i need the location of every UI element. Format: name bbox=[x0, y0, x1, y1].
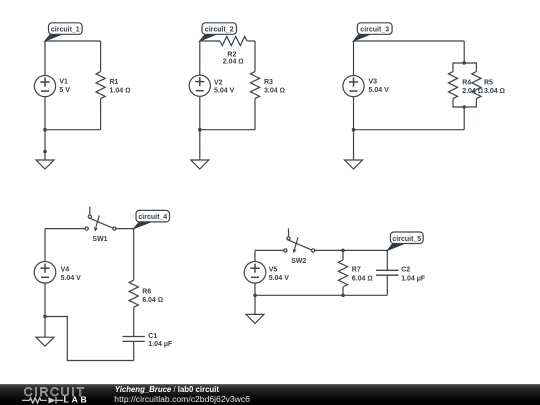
svg-text:SW2: SW2 bbox=[291, 258, 306, 265]
svg-text:SW1: SW1 bbox=[92, 236, 107, 243]
resistor R3 bbox=[250, 72, 259, 99]
wire top circuit3 bbox=[354, 40, 465, 42]
svg-text:LAB: LAB bbox=[64, 395, 90, 405]
svg-text:circuit_4: circuit_4 bbox=[138, 214, 167, 221]
ground circuit1 bbox=[36, 160, 54, 169]
resistor R6 bbox=[129, 280, 138, 307]
wire bottom circuit2 bbox=[200, 129, 255, 131]
svg-text:circuit_5: circuit_5 bbox=[392, 236, 421, 243]
ground circuit3 bbox=[345, 160, 363, 169]
node junction dot circuit2 bottom-left bbox=[198, 128, 202, 132]
wire left-upper circuit1 bbox=[44, 41, 46, 75]
voltage source V2 bbox=[189, 75, 210, 96]
wire left-lower circuit5 bbox=[254, 283, 256, 295]
wire ground stem circuit1 bbox=[44, 130, 46, 160]
svg-text:1.04 µF: 1.04 µF bbox=[148, 341, 173, 348]
wire top-left circuit5 bbox=[255, 249, 284, 251]
wire parallel right branch bottom bbox=[464, 99, 476, 107]
svg-text:R6: R6 bbox=[142, 289, 151, 296]
wire left-upper circuit2 bbox=[199, 41, 201, 75]
svg-text:C1: C1 bbox=[148, 333, 157, 340]
wire left-lower circuit4 bbox=[44, 283, 46, 316]
wire top-right circuit5 bbox=[315, 249, 388, 251]
svg-text:3.04 Ω: 3.04 Ω bbox=[484, 88, 505, 95]
resistor R1 bbox=[96, 72, 105, 99]
switch SW1 bbox=[85, 207, 116, 232]
resistor R7 bbox=[338, 260, 347, 287]
svg-text:5.04 V: 5.04 V bbox=[369, 87, 390, 94]
svg-text:5.04 V: 5.04 V bbox=[214, 88, 235, 95]
resistor R2 (horizontal) bbox=[220, 36, 247, 45]
CircuitLab logo bbox=[0, 384, 110, 405]
svg-text:circuit_3: circuit_3 bbox=[360, 27, 389, 34]
footer bar bbox=[0, 384, 540, 405]
svg-text:1.04 µF: 1.04 µF bbox=[401, 275, 426, 282]
svg-text:V3: V3 bbox=[369, 79, 378, 86]
node junction dot circuit4 bbox=[43, 315, 47, 319]
label callout circuit_4 bbox=[134, 210, 170, 228]
wire ground stem circuit3 bbox=[353, 130, 355, 160]
node junction dot circuit1 bottom-left bbox=[43, 128, 47, 132]
svg-text:V4: V4 bbox=[61, 267, 70, 274]
svg-text:R1: R1 bbox=[110, 79, 119, 86]
wire right-lower circuit1 bbox=[100, 99, 102, 130]
wire ground stem circuit5 bbox=[254, 295, 256, 314]
label callout circuit_5 bbox=[387, 232, 423, 250]
wire right-upper circuit2 bbox=[254, 41, 256, 72]
wire left-upper circuit3 bbox=[353, 41, 355, 75]
capacitor C2 bbox=[376, 270, 398, 275]
svg-text:R3: R3 bbox=[264, 79, 273, 86]
wire parallel right branch top bbox=[464, 63, 476, 72]
wire right rail mid circuit4 bbox=[133, 307, 135, 336]
wire C2 upper lead bbox=[386, 250, 388, 270]
svg-text:V1: V1 bbox=[59, 79, 68, 86]
svg-text:R7: R7 bbox=[352, 267, 361, 274]
ground circuit2 bbox=[191, 160, 209, 169]
wire left-upper circuit5 bbox=[254, 250, 256, 261]
wire right rail upper circuit4 bbox=[133, 229, 135, 281]
wire C2 lower lead bbox=[386, 275, 388, 295]
svg-text:C2: C2 bbox=[401, 267, 410, 274]
svg-text:R5: R5 bbox=[484, 79, 493, 86]
svg-text:2.04 Ω: 2.04 Ω bbox=[223, 59, 244, 66]
wire ground stem circuit2 bbox=[199, 130, 201, 160]
wire parallel left branch bottom bbox=[453, 99, 464, 107]
svg-text:V2: V2 bbox=[214, 79, 223, 86]
ground circuit5 bbox=[246, 314, 264, 323]
svg-text:6.04 Ω: 6.04 Ω bbox=[142, 297, 163, 304]
node junction dot circuit1 ground bbox=[43, 150, 47, 154]
wire junction to bottom circuit4 bbox=[45, 317, 134, 361]
wire left-lower circuit2 bbox=[199, 96, 201, 129]
svg-text:circuit_1: circuit_1 bbox=[51, 27, 80, 34]
wire top-right circuit2 bbox=[247, 40, 255, 42]
voltage source V3 bbox=[343, 76, 364, 97]
wire parallel left branch top bbox=[453, 63, 464, 72]
svg-text:V5: V5 bbox=[269, 267, 278, 274]
resistor R4 bbox=[448, 72, 457, 99]
wire bottom circuit5 bbox=[255, 294, 387, 296]
svg-text:5.04 V: 5.04 V bbox=[269, 275, 290, 282]
capacitor C1 bbox=[123, 337, 145, 342]
wire right-upper circuit1 bbox=[100, 41, 102, 72]
svg-text:3.04 Ω: 3.04 Ω bbox=[264, 87, 285, 94]
svg-text:5 V: 5 V bbox=[59, 87, 70, 94]
svg-text:5.04 V: 5.04 V bbox=[61, 275, 82, 282]
wire left-lower circuit3 bbox=[353, 97, 355, 130]
label callout circuit_2 bbox=[200, 23, 237, 41]
footer text line 1 bbox=[115, 386, 219, 394]
wire top-left circuit2 bbox=[200, 40, 220, 42]
node junction dot circuit3 bottom-left bbox=[352, 128, 356, 132]
wire top circuit1 bbox=[45, 40, 101, 42]
svg-text:R4: R4 bbox=[462, 79, 471, 86]
voltage source V5 bbox=[244, 262, 266, 284]
svg-text:circuit_2: circuit_2 bbox=[205, 27, 234, 34]
wire ground stem circuit4 bbox=[44, 317, 46, 338]
voltage source V4 bbox=[34, 262, 56, 284]
node junction dot circuit3 parallel bottom bbox=[462, 105, 466, 109]
svg-text:6.04 Ω: 6.04 Ω bbox=[352, 275, 373, 282]
svg-text:1.04 Ω: 1.04 Ω bbox=[110, 87, 131, 94]
switch SW2 bbox=[284, 228, 315, 253]
wire right-upper circuit3 bbox=[463, 41, 465, 63]
node junction dot circuit5 bottom-left bbox=[253, 294, 257, 298]
footer text line 2 bbox=[114, 395, 250, 404]
wire left-lower circuit1 bbox=[44, 97, 46, 130]
wire right rail lower circuit4 bbox=[133, 341, 135, 360]
wire left-upper circuit4 bbox=[44, 229, 46, 262]
wire bottom circuit1 bbox=[45, 129, 101, 131]
node junction dot circuit3 parallel top bbox=[462, 61, 466, 65]
wire right-lower circuit2 bbox=[254, 99, 256, 130]
wire bottom circuit3 bbox=[354, 129, 465, 131]
ground circuit4 bbox=[36, 337, 54, 346]
wire right-lower circuit3 bbox=[463, 107, 465, 130]
wire top-left circuit4 bbox=[45, 228, 85, 230]
label callout circuit_1 bbox=[45, 23, 82, 41]
wire R7 lower lead bbox=[342, 287, 344, 295]
resistor R5 bbox=[472, 72, 481, 99]
wire top-right circuit4 bbox=[116, 228, 134, 230]
label callout circuit_3 bbox=[354, 23, 393, 41]
node junction dot circuit5 R7 top bbox=[341, 249, 345, 253]
wire R7 upper lead bbox=[342, 250, 344, 260]
node junction dot circuit5 R7 bottom bbox=[341, 294, 345, 298]
voltage source V1 bbox=[34, 76, 55, 97]
